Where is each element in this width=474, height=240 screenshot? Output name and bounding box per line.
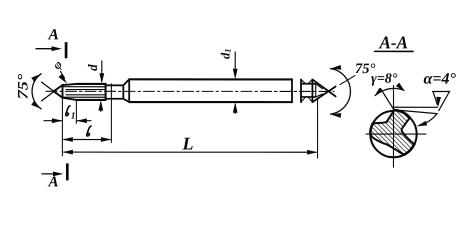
tool body: square drive flats (301, 84, 316, 97)
section centerline vertical / radial reference (392, 86, 394, 167)
svg-text:α=4°: α=4° (424, 71, 457, 88)
dimension l1: line and outside arrows (44, 120, 91, 122)
tool body: left point cone (54, 85, 63, 98)
dimension L: line and arrows (64, 151, 316, 153)
section marker A bottom: arrow (42, 173, 54, 175)
tool body: thread root lines (64, 87, 106, 98)
svg-text:γ=8°: γ=8° (371, 72, 398, 87)
dimension L: extension line right (317, 99, 319, 158)
tool body: thread profile mid lines (66, 90, 106, 95)
gamma callout: face line (380, 89, 394, 110)
tool body: chamfer taper (63, 84, 77, 100)
dimension d1: upper arrow (234, 52, 236, 76)
dimension l1: label (66, 106, 70, 116)
right 75 deg: arc with arrows (330, 69, 350, 115)
tool body: square corner chamfers (301, 79, 312, 102)
svg-text:d1: d1 (219, 48, 233, 59)
tool body: square drive verticals (292, 79, 312, 102)
section core (3-flute) hatched (370, 110, 414, 155)
section centerline horizontal (366, 133, 426, 135)
section tooth land arcs (thick) (394, 110, 410, 118)
dimension l1: extension lines (62, 97, 76, 156)
dimension d: upper arrow (101, 61, 103, 81)
tool body: left cone angle lines extended (X) (42, 82, 63, 101)
dimension l: label (87, 126, 91, 136)
dimension d: lower arrow (100, 103, 102, 112)
tool body: taper to shank (123, 79, 129, 102)
svg-text:A: A (47, 174, 58, 190)
svg-text:d: d (85, 64, 100, 71)
section circle (370, 111, 416, 157)
section marker A top: thick bar (65, 42, 68, 58)
section marker A top: arrow (36, 48, 54, 50)
tool body: right point cone with extended X (312, 79, 335, 102)
dimension d1: lower arrow (234, 105, 236, 114)
gamma callout: arc with arrows (375, 88, 404, 95)
tool body: neck (106, 85, 124, 98)
tool body: thread end edge (105, 84, 107, 100)
dimension l: line and arrows (64, 139, 110, 141)
svg-text:75°: 75° (16, 74, 32, 100)
tool body: shank (129, 79, 292, 102)
alpha callout: horizontal reference line (393, 106, 437, 108)
left 75 deg: arc with arrows (32, 74, 41, 109)
svg-text:L: L (181, 133, 193, 153)
section marker A bottom: thick bar (66, 163, 69, 180)
tool body: thread crest lines (77, 84, 106, 100)
dimension l: extension line right (110, 84, 112, 142)
alpha callout: leader triangle (432, 92, 449, 111)
svg-text:A-A: A-A (379, 32, 408, 52)
svg-text:φ: φ (50, 57, 65, 72)
alpha callout: relief 4deg line with hooked arrow (394, 110, 437, 125)
centerline of tool (46, 90, 334, 92)
tool body: tip cone inner edges (316, 84, 323, 97)
svg-text:1: 1 (71, 112, 76, 122)
svg-text:A: A (48, 26, 59, 43)
